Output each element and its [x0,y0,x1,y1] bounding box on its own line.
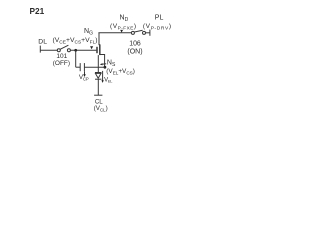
wire cap branch left [76,66,81,68]
switch 106 contact circle right [143,31,146,34]
VEL arrow [102,71,104,81]
switch 101 arm (open/OFF) [60,45,68,49]
svg-text:(ON): (ON) [127,48,142,55]
terminal bar CL [94,94,102,96]
wire switch 106 to PL tick [146,32,150,34]
switch 101 contact circle right [67,49,70,52]
svg-text:DL: DL [38,38,47,45]
capacitor plate right [83,63,85,71]
svg-text:P21: P21 [30,6,45,16]
capacitor plate left [79,63,81,71]
wire switch 101 to gate [70,49,96,51]
transistor gate bar [96,47,98,53]
svg-text:106: 106 [129,40,141,47]
wire cap to NS node [84,66,105,68]
svg-text:PL: PL [155,15,164,22]
VCP arrow [84,71,86,74]
wire EL anode [97,55,99,72]
EL element cathode bar [95,78,101,80]
transistor drain arm [98,33,101,45]
transistor source arm [100,55,105,68]
terminal tick DL [39,46,41,53]
EL element anode bar [95,72,101,74]
node NS leader line [102,63,106,65]
svg-text:(OFF): (OFF) [53,60,70,67]
wire EL cathode to CL [97,79,99,95]
switch 101 contact circle left [57,49,60,52]
EL element triangle [95,73,101,78]
switch 106 contact circle left [131,31,134,34]
node ND leader arrow [120,30,123,33]
node NS leader arrow [100,63,103,65]
svg-text:101: 101 [56,53,67,60]
terminal tick PL [149,30,151,36]
junction node gate/cap [74,49,77,52]
node NG leader arrow [90,46,93,49]
wire cap branch vertical [75,50,77,67]
junction node NS/cap [104,66,107,69]
switch 106 arm (closed/ON) [135,30,143,32]
transistor channel bar [99,44,101,55]
wire DL to switch 101 [40,49,57,51]
wire top horizontal (ND to switch 106) [98,32,131,34]
